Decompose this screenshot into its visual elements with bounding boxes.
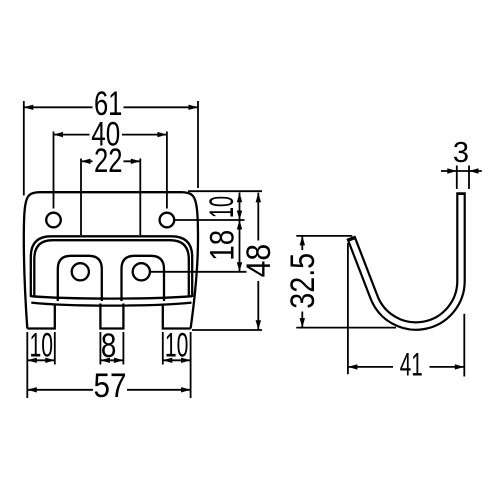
ext line 3 left [456,166,458,190]
svg-text:10: 10 [29,327,53,365]
svg-text:10: 10 [165,327,189,365]
arrow 61 left [24,105,34,110]
dim line 48 vertical [257,193,259,241]
arrows 10 right foot [163,358,173,363]
right foot bottom [163,304,191,329]
arrows 3 [447,168,457,173]
left tab [58,256,102,301]
svg-text:57: 57 [94,367,127,405]
ext line 3 right [468,166,470,190]
arrow 10dim bottom [237,211,242,221]
svg-text:32.5: 32.5 [284,253,322,309]
ext bottom right [192,329,262,331]
svg-text:41: 41 [400,347,423,383]
svg-text:48: 48 [240,244,278,278]
arrows 41 [348,364,358,369]
ext top right [188,190,262,192]
fold band lower edge [34,240,189,297]
upper screw hole right [160,213,175,228]
svg-text:3: 3 [453,137,469,169]
dim line 61 [24,106,93,108]
arrow 18dim bottom [237,262,242,272]
arrow 22 right [131,159,141,164]
ext line 22 right [139,159,141,236]
ext hook tip vertical [347,243,349,374]
upper screw hole left [46,213,61,228]
left tab hole [72,263,89,280]
ext line 40 left [53,132,55,209]
dim line 3 [441,170,482,172]
dim line 57 [27,389,93,391]
right tab [122,256,165,301]
ext line 22 left [80,159,82,236]
dim line 41 [348,366,393,368]
svg-text:22: 22 [94,142,123,180]
left foot bottom [27,304,55,329]
arrow 61 right [189,105,199,110]
arrow 40 right [157,132,167,137]
hem upper edge [31,296,192,298]
right tab hole [133,263,150,280]
leader upper hole [174,219,244,221]
arrow 40 left [54,132,64,137]
side view hook inner white [352,195,461,326]
fold band upper edge [31,236,192,297]
dim line 32.5 [301,236,303,250]
ext hook right vertical [463,314,465,377]
arrows 8 middle foot [100,358,110,363]
ext line 61 left [23,101,25,196]
dim line 8 middle foot [100,359,123,361]
middle foot [100,304,123,329]
svg-text:18: 18 [203,230,241,261]
leader tab hole [150,271,247,273]
hem lower edge [31,303,191,306]
dim line 22 [81,160,93,162]
ext line 40 right [166,132,168,209]
arrow 48 bottom [256,320,261,330]
arrow 18dim top [237,220,242,230]
arrow 10dim top [237,193,242,203]
arrow 22 left [81,159,91,164]
side view hook outer stroke [351,192,461,326]
arrows 57 [27,387,37,392]
dim line 40 [54,134,90,136]
feet ext lines [26,332,28,398]
dim line 10 right foot [163,359,191,361]
ext 32.5 bottom tangent [296,327,396,329]
dim line 10-18 vertical [239,193,241,272]
front view outer plate silhouette [24,192,198,328]
arrows 10 left foot [27,358,37,363]
arrows 32.5 [300,236,305,246]
svg-text:10: 10 [203,196,241,218]
svg-text:8: 8 [101,327,117,365]
dim line 10 left foot [27,359,55,361]
ext 32.5 top [296,235,352,237]
ext line 61 right [197,101,199,188]
arrow 48 top [256,193,261,203]
